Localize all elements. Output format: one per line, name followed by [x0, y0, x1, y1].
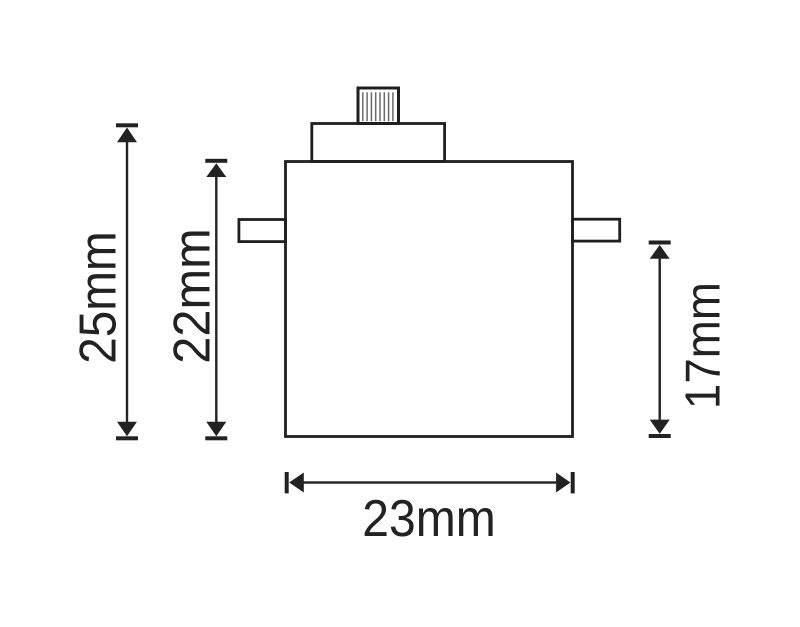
svg-text:17mm: 17mm	[677, 282, 731, 409]
svg-text:25mm: 25mm	[70, 231, 128, 364]
svg-text:23mm: 23mm	[362, 490, 496, 548]
svg-text:22mm: 22mm	[164, 228, 222, 364]
